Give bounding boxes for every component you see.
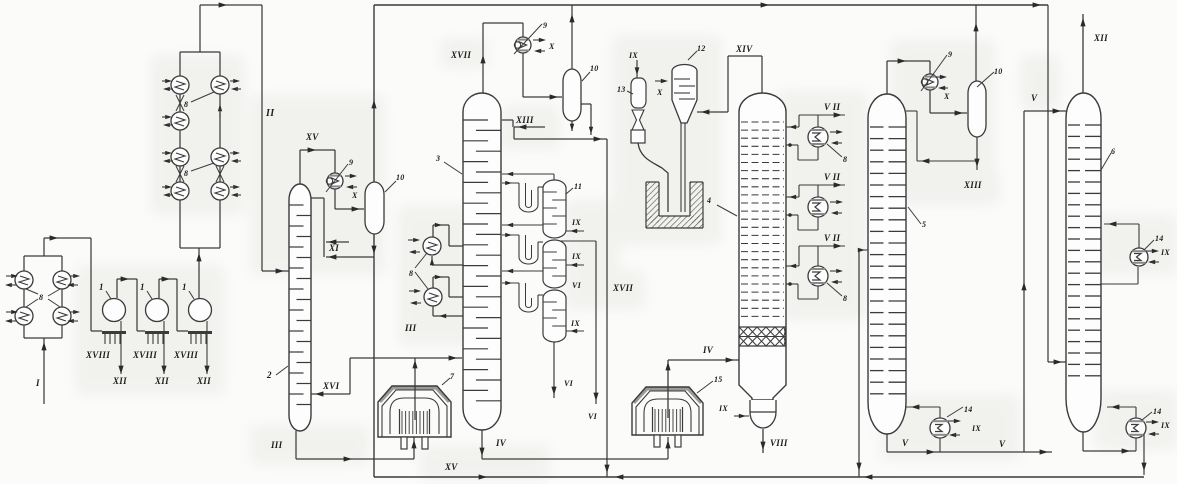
wire: quench IX into pot	[734, 415, 749, 417]
tube furnace 7	[380, 388, 449, 402]
wire: desalter water drain XII	[163, 321, 165, 374]
wire: main overhead gas header (top border)	[374, 4, 1048, 6]
wire: heating steam IX arrows	[954, 419, 961, 423]
wire: stream V riser to column 6	[1023, 111, 1025, 452]
svg-text:X: X	[548, 42, 555, 51]
svg-text:1: 1	[99, 282, 104, 292]
svg-text:VI: VI	[588, 412, 598, 421]
wire: steam IX arrows (mid exchanger)	[1152, 249, 1159, 253]
svg-text:9: 9	[948, 50, 952, 59]
wire: reflux XIII into column 3	[514, 126, 545, 128]
heat exchanger 8 (left row circle)	[171, 76, 189, 94]
column 5 (stabilizer)	[868, 94, 906, 434]
svg-text:V: V	[902, 438, 909, 448]
wire: condensate into reflux drum 10	[334, 189, 336, 209]
svg-text:V: V	[999, 439, 1006, 449]
wire: stripping steam IX lines	[566, 230, 584, 232]
svg-text:9: 9	[349, 158, 353, 167]
wire: reboiler blowdown to bottom header	[1143, 434, 1145, 475]
svg-text:7: 7	[450, 372, 455, 381]
column 4 (vacuum column)	[739, 93, 786, 400]
wire: column 2 bottoms III to furnace 7	[295, 431, 297, 459]
wire: desalter 3 to exchanger train	[198, 248, 200, 298]
svg-text:6: 6	[1111, 147, 1115, 156]
heat exchanger 8 (right row circle)	[211, 76, 229, 94]
wire: vacuum line XIV from column 4 to condenser	[761, 56, 763, 93]
wire: bottom header line XV	[374, 476, 1144, 478]
svg-text:IX: IX	[971, 424, 981, 433]
wire: drum bottom stub	[571, 121, 573, 131]
wire: distillate line down to bottom header (right of furnace 15)	[608, 138, 610, 140]
wire: stripper 3 bottom product VI	[553, 342, 555, 398]
svg-text:VI: VI	[564, 379, 574, 388]
wire: desalter 2 to desalter 3	[158, 279, 160, 298]
wire: cooling air arrows with label X	[539, 38, 546, 42]
wire: train internal flow arrow	[218, 104, 222, 111]
reflux drum 10 (column 3)	[563, 69, 581, 121]
svg-text:I: I	[35, 378, 40, 388]
heat exchanger 8 (bank circle)	[15, 271, 33, 289]
reboiler 14 (column 6)	[1082, 432, 1084, 451]
heat exchanger 8 lower circle	[432, 277, 434, 288]
svg-text:VIII: VIII	[770, 438, 788, 448]
svg-text:IX: IX	[571, 252, 581, 261]
wire: tray draw to seal loop	[502, 234, 519, 236]
wire: drum 10 liquid down to bottom header XV	[373, 234, 375, 477]
side stripper 11 (section 3)	[543, 290, 566, 342]
svg-text:IX: IX	[570, 319, 580, 328]
wire: naphtha run-down line	[514, 138, 607, 140]
svg-text:14: 14	[1153, 407, 1162, 416]
wire: steam IX arrows (reboiler 14 column 6)	[1152, 420, 1159, 424]
wire: column 5 overhead to condenser 9	[886, 61, 888, 94]
wire: gas header drop into column K6	[1047, 5, 1049, 362]
wire: stripper 1 bottom product VI line	[560, 240, 596, 242]
heat exchanger 8 (left row circle)	[171, 112, 189, 130]
wire: condensate into reflux drum 10 (column 5)	[929, 90, 931, 113]
svg-text:XIII: XIII	[963, 180, 982, 190]
heat exchanger 8 (bank circle)	[53, 271, 71, 289]
electric desalter 1 (#3)	[189, 299, 212, 322]
svg-text:12: 12	[697, 44, 706, 53]
svg-text:XVII: XVII	[612, 283, 633, 293]
wire: reflux XI back to column 2	[311, 197, 324, 199]
wire: line from bottom header up into column 5	[858, 250, 860, 477]
svg-text:XIV: XIV	[735, 44, 753, 54]
svg-text:XVIII: XVIII	[173, 350, 198, 360]
reflux drum 10 (column 5)	[968, 81, 986, 137]
wire: desalter 1 to desalter 2	[116, 279, 118, 298]
svg-text:X: X	[656, 88, 663, 97]
bottom receiver pot of column 4	[750, 400, 776, 428]
column 6 (secondary distillation)	[1066, 93, 1101, 432]
svg-text:8: 8	[843, 294, 847, 303]
wire: drum 10 vapour riser to gas header	[373, 5, 375, 182]
svg-text:V II: V II	[824, 172, 840, 182]
wire: reboiler return to column 5	[939, 407, 941, 418]
svg-text:1: 1	[140, 282, 145, 292]
svg-text:IX: IX	[628, 51, 638, 60]
wire: column 2 overhead XV to condenser 9	[299, 150, 301, 184]
svg-text:VI: VI	[572, 281, 582, 290]
svg-text:XII: XII	[1093, 33, 1108, 43]
svg-text:XI: XI	[328, 243, 339, 253]
air cooler 9 (column 5 overhead)	[922, 74, 938, 90]
svg-text:II: II	[265, 108, 275, 119]
heat exchanger 8 (bank circle)	[53, 307, 71, 325]
wire: steam IX into ejector 13	[636, 60, 638, 78]
svg-text:8: 8	[184, 169, 188, 178]
svg-text:IX: IX	[718, 404, 728, 413]
wire: crude II from train to column K2	[199, 5, 201, 52]
svg-text:IV: IV	[702, 345, 714, 355]
barometric condenser 12	[672, 65, 697, 123]
wire: tar VIII outlet	[762, 429, 764, 453]
svg-text:8: 8	[184, 100, 188, 109]
heat exchanger train 8 (top left, raw crude preheat)	[180, 51, 220, 53]
heat exchanger 8 (vacuum side stream #1)	[786, 126, 799, 128]
svg-text:XII: XII	[196, 376, 211, 386]
svg-text:14: 14	[964, 405, 973, 414]
svg-text:III: III	[270, 440, 283, 450]
wire: bank outlet to electric desalter 1	[43, 238, 45, 256]
svg-text:8: 8	[409, 269, 413, 278]
heat exchanger 8 (right row circle)	[211, 148, 229, 166]
svg-text:8: 8	[843, 155, 847, 164]
wire: condensate into reflux drum 10 (column 3)	[522, 53, 524, 97]
svg-text:10: 10	[590, 64, 599, 73]
wire: barometric leg (double pipe) into well	[680, 123, 682, 212]
electric desalter 1 (#1)	[103, 299, 126, 322]
svg-text:XVIII: XVIII	[85, 350, 110, 360]
svg-text:XVI: XVI	[322, 381, 340, 391]
wire: desalter water drain XII	[206, 321, 208, 374]
svg-text:13: 13	[617, 85, 626, 94]
wire: cooling air arrows with label X	[350, 174, 357, 178]
packed bed of column 4	[739, 326, 786, 328]
svg-text:XV: XV	[305, 132, 319, 142]
svg-text:V II: V II	[824, 102, 840, 112]
wire: desalter water drain XII	[120, 321, 122, 374]
svg-text:8: 8	[39, 293, 43, 302]
reboiler 14 (column 5)	[930, 418, 950, 438]
heat exchanger 14 (column 6 circulating reflux)	[1104, 223, 1139, 225]
reflux drum 10 (column 2)	[365, 182, 384, 234]
svg-text:X: X	[351, 191, 358, 200]
heat exchanger 8 (left row circle)	[171, 148, 189, 166]
svg-text:10: 10	[396, 173, 405, 182]
svg-text:11: 11	[574, 182, 582, 191]
svg-text:2: 2	[266, 370, 272, 380]
svg-text:15: 15	[714, 375, 723, 384]
heat exchanger 8 (vacuum side stream #2)	[786, 196, 799, 198]
svg-text:IV: IV	[495, 438, 507, 448]
wire: ejector barometric tail pipe into well	[638, 143, 668, 212]
air cooler 9 (column 2 overhead)	[327, 173, 343, 189]
column 3 (atmospheric column K-2)	[463, 93, 501, 430]
wire: long product line down to bottom header	[606, 139, 608, 477]
svg-text:10: 10	[994, 67, 1003, 76]
wire: tray draw to seal loop	[502, 282, 519, 284]
heat exchanger 8 (bank circle)	[15, 307, 33, 325]
column 2 (topping column K-1)	[289, 184, 311, 431]
heat exchanger 8 (vacuum side stream #3)	[786, 265, 799, 267]
wire: column 5 bottoms to reboiler 14	[886, 434, 888, 452]
air cooler 9 (column 3 overhead)	[515, 37, 531, 53]
svg-text:XIII: XIII	[515, 115, 534, 125]
electric desalter 1 (#2)	[146, 299, 169, 322]
svg-text:IX: IX	[571, 218, 581, 227]
svg-text:X: X	[943, 92, 950, 101]
svg-text:IX: IX	[1160, 248, 1170, 257]
wire: reboiler return to column 6	[1135, 407, 1137, 418]
svg-text:14: 14	[1155, 234, 1164, 243]
heat exchanger 8 (left row circle)	[171, 182, 189, 200]
svg-text:V II: V II	[824, 233, 840, 243]
svg-text:III: III	[404, 323, 417, 333]
tube furnace 15	[634, 389, 701, 403]
wire: tray draw to seal loop	[502, 182, 519, 184]
svg-text:4: 4	[706, 196, 711, 205]
wire: water X into condenser 12	[661, 79, 668, 83]
wire: cooling air arrows with label X	[940, 75, 947, 79]
wire: drum vapour riser to gas header	[571, 5, 573, 69]
wire: drum side outlet down	[581, 103, 591, 105]
svg-text:XII: XII	[154, 376, 169, 386]
svg-text:V: V	[1031, 93, 1038, 103]
wire: furnace 15 transfer line IV to column 4	[667, 360, 669, 418]
svg-text:1: 1	[182, 282, 187, 292]
wire: reflux return to column 5	[917, 160, 977, 162]
wire: column 3 bottoms IV to furnace 15	[481, 430, 483, 459]
wire: drum vapour riser to gas header	[975, 5, 977, 81]
svg-text:3: 3	[435, 154, 440, 163]
svg-text:XII: XII	[112, 376, 127, 386]
steam ejector 13	[631, 78, 646, 108]
svg-text:XV: XV	[444, 462, 458, 472]
svg-text:XVII: XVII	[450, 50, 471, 60]
wire: crude feed I into bank	[43, 338, 45, 404]
wire: stripper draw-off loops and returns	[502, 173, 554, 175]
wire: column 6 overhead XII vent	[1082, 14, 1084, 93]
svg-text:5: 5	[922, 220, 926, 229]
svg-text:9: 9	[543, 21, 547, 30]
svg-text:XVIII: XVIII	[132, 350, 157, 360]
side stripper 11 (section 2)	[543, 240, 566, 288]
svg-text:IX: IX	[1160, 421, 1170, 430]
wire: hot jet XVI back to column 2	[349, 358, 351, 394]
heat exchangers 8 (column 3 circulating reflux pair)	[432, 225, 434, 237]
side stripper 11 (section 1)	[543, 180, 566, 238]
wire: column 3 overhead XVII to condenser	[482, 23, 484, 93]
heat exchanger bank 8 (lower left)	[24, 255, 62, 257]
wire: furnace 7 transfer line to column 3	[414, 358, 416, 420]
wire: drum bottoms XIII	[976, 137, 978, 170]
heat exchanger 8 (right row circle)	[211, 182, 229, 200]
